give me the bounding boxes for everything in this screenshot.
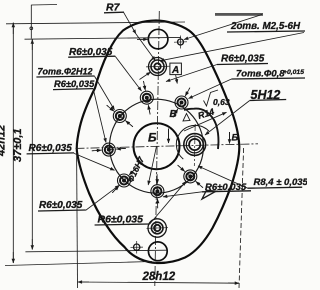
ring holes bbox=[92, 81, 203, 208]
horizontal centerline bbox=[76, 144, 259, 149]
svg-text:7отв.Ф2Н12: 7отв.Ф2Н12 bbox=[38, 67, 93, 77]
arrow at top hole left bbox=[137, 38, 148, 40]
datum V bbox=[170, 109, 191, 121]
ring hole 3 (2H12/0.8 drilled) bbox=[92, 143, 126, 156]
svg-text:37±0,1: 37±0,1 bbox=[12, 128, 24, 162]
section arrow at center bbox=[168, 129, 170, 144]
leader from streak with elbow to top threaded hole bbox=[136, 15, 262, 61]
gray streak top right bbox=[215, 13, 263, 16]
label R6 no1 bbox=[68, 47, 141, 91]
svg-text:А: А bbox=[171, 65, 179, 76]
section arrow B bbox=[230, 132, 239, 144]
bolt circle bbox=[110, 99, 204, 193]
vertical centerline bbox=[155, 11, 160, 286]
top left tick bbox=[30, 5, 57, 39]
central bore bbox=[134, 123, 180, 169]
svg-text:42h12: 42h12 bbox=[0, 125, 8, 157]
label R6 no5 bbox=[95, 181, 186, 225]
top hole bbox=[148, 29, 168, 49]
slot hump arc bbox=[184, 109, 219, 149]
svg-text:+0,015: +0,015 bbox=[283, 69, 304, 76]
dimension 37 bbox=[25, 37, 182, 251]
label R14 bbox=[184, 107, 227, 131]
ring hole 4 (2H12/0.8 drilled) bbox=[112, 168, 135, 193]
svg-text:R6±0,035: R6±0,035 bbox=[29, 143, 73, 154]
bottom left small hole bbox=[131, 241, 144, 254]
dimension 42h12 bbox=[5, 22, 185, 266]
svg-text:Б: Б bbox=[232, 133, 239, 144]
label R8.4 bbox=[198, 166, 309, 188]
svg-text:R6±0,035: R6±0,035 bbox=[221, 54, 265, 65]
svg-text:28h12: 28h12 bbox=[142, 271, 176, 283]
label R6 top-right bbox=[166, 54, 268, 82]
bottom threaded hole M2.5 bbox=[147, 219, 169, 237]
label R6 no2 bbox=[53, 79, 106, 143]
svg-text:R8,4 ± 0,035: R8,4 ± 0,035 bbox=[254, 177, 308, 188]
label R6 no4 bbox=[38, 185, 119, 211]
part outline bbox=[77, 21, 240, 264]
ring hole 6 (2H12/0.8 drilled) bbox=[178, 165, 203, 188]
roughness 0.63 bbox=[204, 90, 230, 107]
label 7otv f0.8 bbox=[189, 69, 306, 99]
svg-text:2отв. М2,5-6Н: 2отв. М2,5-6Н bbox=[230, 21, 301, 32]
label 7otv f2 bbox=[36, 67, 114, 111]
svg-text:0,63: 0,63 bbox=[213, 97, 230, 107]
label F16H7 bbox=[125, 146, 156, 185]
label 5H12 bbox=[205, 88, 286, 135]
label R6 no6 bbox=[163, 182, 251, 199]
right hole 5H12 bbox=[184, 124, 206, 166]
bottom hole bbox=[148, 242, 167, 261]
svg-text:R7: R7 bbox=[106, 2, 121, 14]
label R7 bbox=[104, 2, 136, 35]
ring hole 5 (2H12/0.8 drilled) bbox=[151, 174, 164, 208]
top right small hole bbox=[174, 36, 187, 49]
top threaded hole M2.5 bbox=[146, 58, 170, 76]
svg-text:R6±0,035: R6±0,035 bbox=[39, 200, 83, 211]
datum box A bbox=[170, 63, 182, 83]
ring hole 7 (2H12/0.8 drilled) bbox=[173, 88, 190, 118]
svg-text:В: В bbox=[170, 109, 177, 120]
label 2otv M2.5 bbox=[160, 21, 305, 61]
svg-text:R6±0,035: R6±0,035 bbox=[54, 79, 95, 89]
ring hole 2 (2H12/0.8 drilled) bbox=[107, 105, 133, 127]
label R6 no3 bbox=[27, 143, 115, 170]
dimension 28h12 bbox=[77, 148, 244, 288]
arrow to top threaded hole from lower-left bbox=[140, 72, 151, 80]
slot left arc bbox=[176, 125, 209, 159]
ring hole 1 (2H12/0.8 drilled) bbox=[140, 81, 153, 114]
svg-text:Б: Б bbox=[148, 131, 157, 145]
